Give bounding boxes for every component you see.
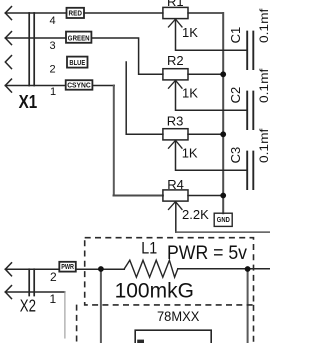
svg-text:4: 4 [50,15,56,27]
svg-text:100mkG: 100mkG [115,280,194,303]
svg-text:0.1mf: 0.1mf [257,8,270,43]
svg-text:R3: R3 [167,113,184,128]
svg-text:C3: C3 [228,147,243,164]
svg-text:1: 1 [50,86,56,98]
svg-text:CSYNC: CSYNC [67,83,91,90]
svg-text:0.1mf: 0.1mf [257,68,270,103]
svg-text:BLUE: BLUE [69,60,85,67]
svg-text:1: 1 [50,292,57,306]
svg-text:2: 2 [50,270,57,284]
svg-text:1K: 1K [182,146,198,161]
svg-text:C1: C1 [228,27,243,44]
svg-text:R4: R4 [167,177,184,192]
svg-text:2.2K: 2.2K [182,207,209,222]
svg-text:C2: C2 [228,87,243,104]
svg-text:X1: X1 [19,92,38,112]
svg-text:1K: 1K [182,86,198,101]
svg-text:1K: 1K [182,25,198,40]
svg-text:PWR = 5v: PWR = 5v [167,242,247,264]
svg-text:0.1mf: 0.1mf [257,128,270,163]
svg-text:78MXX: 78MXX [157,309,199,324]
svg-text:R2: R2 [167,53,184,68]
svg-text:GND: GND [217,217,230,224]
svg-text:L1: L1 [141,240,157,258]
svg-text:GREEN: GREEN [68,35,90,42]
svg-text:R1: R1 [167,0,184,9]
svg-text:RED: RED [69,11,82,18]
svg-text:X2: X2 [20,295,36,315]
svg-text:PWR: PWR [61,264,74,271]
svg-text:3: 3 [50,40,56,52]
svg-text:2: 2 [50,64,56,76]
